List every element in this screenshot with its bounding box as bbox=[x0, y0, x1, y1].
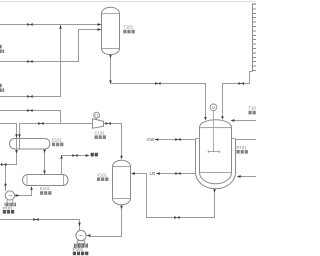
arrow left at CW label bbox=[154, 138, 158, 141]
label E101 condenser bbox=[52, 138, 63, 147]
arrow down into P101 suction bbox=[4, 184, 7, 188]
valve on solvent line y=61 bbox=[27, 60, 32, 63]
absorber column T101 bbox=[102, 7, 120, 54]
arrow left into P102 suction bbox=[86, 234, 90, 237]
valve on CW line bbox=[175, 138, 180, 141]
top border line bbox=[0, 1, 256, 3]
valve on P102 discharge header y=219.5 bbox=[33, 218, 38, 221]
wire: E101 bottoms x=44.5 down to E102 top bbox=[44, 149, 46, 174]
label P102 transfer pump bbox=[73, 247, 88, 256]
arrow into T101 upper nozzle bbox=[98, 23, 102, 26]
wire: feed from right edge into reactor dome right side bbox=[234, 120, 257, 122]
wire: P102 discharge riser x=79.5 to header y=219.5 to left edge bbox=[0, 220, 80, 231]
reactor R101 inner vessel bbox=[200, 120, 232, 184]
wire: feed gas line into T101 top nozzle bbox=[0, 24, 100, 26]
svg-text:P101: P101 bbox=[3, 205, 13, 210]
valve on compressor suction header bbox=[38, 122, 43, 125]
arrow down below T101 bottoms bbox=[109, 55, 112, 59]
svg-text:M: M bbox=[212, 105, 215, 110]
wire: T101 bottoms down to header y=83 bbox=[110, 55, 112, 84]
arrow up at top of riser x=60 bbox=[59, 25, 62, 29]
reactor R101 jacket bbox=[196, 139, 236, 189]
arrow down into flash drum top bbox=[120, 156, 123, 160]
arrow left into flash drum right nozzle bbox=[131, 172, 135, 175]
label P101 reflux pump bbox=[3, 205, 14, 213]
condenser E102 bbox=[23, 175, 69, 186]
wire: riser x=60 from y=96 line up to y=24 line bbox=[0, 25, 61, 97]
pump P102 hatched base bbox=[75, 244, 88, 248]
svg-text:P102: P102 bbox=[73, 247, 83, 252]
wire: jacket right side coolant line to right edge bbox=[236, 139, 256, 141]
svg-text:E102: E102 bbox=[40, 186, 50, 191]
svg-text:CW: CW bbox=[147, 137, 155, 142]
svg-text:R101: R101 bbox=[237, 145, 248, 150]
arrow up into E102 bottom nozzle bbox=[30, 186, 33, 190]
arrow left at LR label bbox=[156, 172, 160, 175]
arrow down into E102 top nozzle bbox=[43, 171, 46, 175]
arrow down below E101 bottoms x=44.5 bbox=[43, 150, 46, 154]
valve on reactor feed header y=83 bbox=[155, 82, 160, 85]
arrow down into reactor dome left nozzle bbox=[204, 117, 207, 121]
wire: E101 second top nozzle branch x=19.5 bbox=[19, 124, 21, 139]
arrow down below reactor bottoms bbox=[213, 189, 216, 193]
arrow down on T101 bottoms above corner bbox=[109, 80, 112, 84]
agitator shaft bbox=[213, 111, 215, 152]
arrow down into E101 first nozzle bbox=[15, 134, 18, 138]
reactor R101 dome weld ticks bbox=[202, 128, 229, 129]
label vent (fang kong) bbox=[91, 153, 94, 157]
label T101 absorber bbox=[123, 25, 134, 34]
wire: E102 vent riser x=61.5 to flare line y=155 bbox=[62, 156, 87, 175]
wire: P101 discharge to E102 bottom nozzle bbox=[15, 187, 32, 196]
valve on column bottoms line bbox=[239, 82, 244, 85]
wire: line y=123.6 from left edge down into E101 bbox=[0, 124, 17, 139]
label E102 condenser bbox=[40, 186, 51, 195]
arrow up on vent riser bbox=[60, 155, 63, 159]
valve on reactor bottoms line y=217.5 bbox=[174, 216, 179, 219]
valve on compressor discharge bbox=[106, 122, 111, 125]
wire: LR line from jacket left lower nozzle bbox=[160, 173, 196, 175]
wire: line y=110 dropping at x=60 to compressor header bbox=[0, 111, 61, 124]
wire: reactor bottoms down, along y=217.5, up x=146.5 into V101 bbox=[134, 174, 215, 218]
pump P101 bbox=[5, 191, 14, 203]
svg-text:C101: C101 bbox=[95, 130, 106, 135]
label V101 flash drum bbox=[97, 172, 108, 181]
valve on vent line bbox=[72, 154, 77, 157]
svg-text:T10: T10 bbox=[249, 106, 257, 111]
wire: solvent line y=61 rising at x=78.5 into T101 bbox=[0, 30, 100, 62]
wire: coolant inlet from right edge into jacket bottom right bbox=[240, 176, 256, 178]
svg-text:E101: E101 bbox=[52, 138, 62, 143]
arrow into T101 lower nozzle bbox=[98, 28, 102, 31]
arrow right on P101 discharge bbox=[16, 194, 20, 197]
svg-text:T101: T101 bbox=[124, 25, 134, 30]
wire: branch x=5.5 down to pump P101 suction bbox=[5, 165, 7, 191]
wire: compressor discharge to flash drum top bbox=[103, 124, 122, 159]
label R101 reactor bbox=[237, 145, 248, 154]
condenser E101 bbox=[10, 139, 51, 150]
valve on line y=110 bbox=[27, 109, 32, 112]
left edge stream label (solvent in) bbox=[0, 45, 4, 53]
wire: header y=83 to reactor dome left nozzle bbox=[111, 84, 206, 118]
valve on feed gas line y=24 bbox=[27, 23, 32, 26]
svg-text:V101: V101 bbox=[97, 172, 107, 177]
arrow down below E101 bottoms x=16.5 bbox=[15, 150, 18, 154]
wire: compressor suction header y=123.5 bbox=[20, 123, 93, 125]
arrow right to flare label bbox=[86, 154, 90, 157]
agitator motor M bbox=[210, 104, 217, 111]
left edge stream label (lean liquor) bbox=[0, 84, 4, 92]
arrow down below flash drum bottoms bbox=[120, 206, 123, 210]
wire: CW return from jacket left bbox=[158, 139, 195, 141]
arrow left into reactor dome right side bbox=[230, 119, 234, 122]
wire: E101 bottoms x=16.5 to header y=164.5 to left edge bbox=[0, 149, 17, 165]
pump P102 bbox=[76, 230, 86, 243]
label T102 distillation column (clipped) bbox=[249, 106, 257, 115]
arrow down into reactor dome right nozzle bbox=[221, 116, 224, 120]
valve on line y=96 bbox=[27, 95, 32, 98]
pump P101 hatched base bbox=[5, 203, 15, 207]
compressor C101 bbox=[93, 112, 104, 128]
label C101 compressor bbox=[95, 130, 106, 139]
tray column T102 clipped at right edge bbox=[253, 4, 257, 72]
arrow down into E101 second nozzle bbox=[18, 134, 21, 138]
wire: V101 bottoms down to y=236 and left to pump P102 bbox=[90, 205, 122, 237]
wire: column T102 bottoms to reactor dome right nozzle bbox=[223, 72, 253, 117]
wire: nozzle verticals through E101 shell bbox=[17, 138, 20, 149]
agitator impeller bbox=[208, 150, 220, 153]
valve on E101 bottoms header y=164.5 bbox=[1, 163, 6, 166]
arrow down above P102 bbox=[78, 223, 81, 227]
valve on LR line bbox=[175, 172, 180, 175]
arrow left into jacket bottom right bbox=[237, 175, 241, 178]
svg-text:LR: LR bbox=[150, 171, 156, 176]
flash drum V101 bbox=[113, 160, 131, 205]
